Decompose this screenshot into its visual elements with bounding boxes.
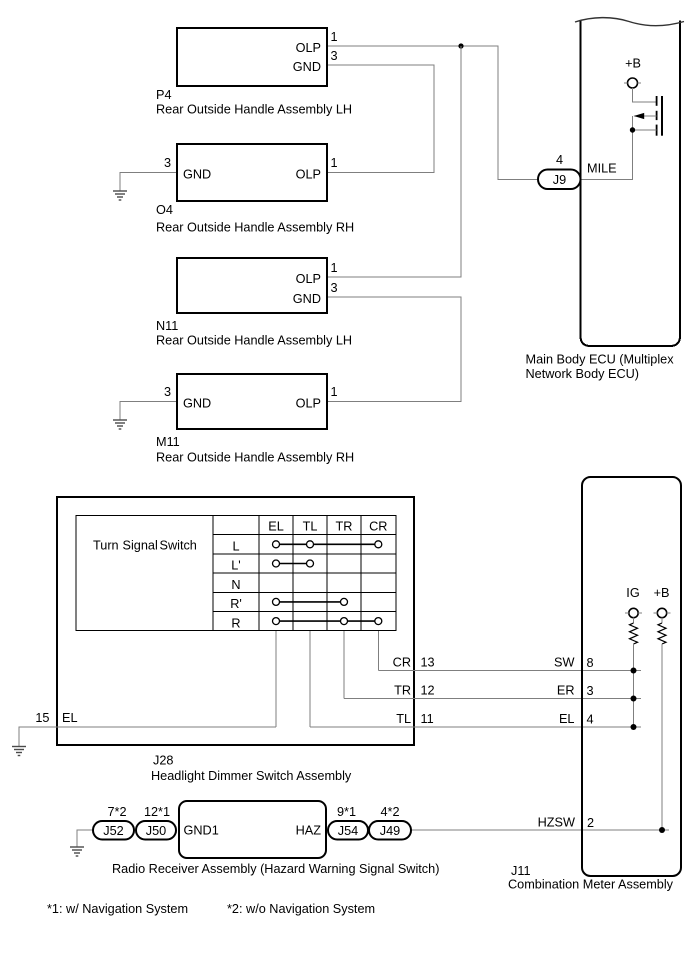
label Rear Outside Handle Assembly RH xyxy=(156,221,354,235)
O4 pin name OLP xyxy=(296,168,321,182)
connector J9 xyxy=(538,170,581,190)
wire +B line down to HZSW node xyxy=(661,644,663,830)
J11 pin name EL xyxy=(559,712,575,726)
svg-text:*1: w/ Navigation System: *1: w/ Navigation System xyxy=(47,902,188,916)
J11 pin number 2 xyxy=(587,816,594,830)
J9 pin number 4 xyxy=(556,153,563,167)
switch row L' contacts xyxy=(273,560,314,567)
wire EL column drop xyxy=(275,631,277,727)
wire radio ground to J52 xyxy=(77,830,93,847)
svg-text:J49: J49 xyxy=(380,824,400,838)
svg-text:J28: J28 xyxy=(153,754,173,768)
svg-text:HZSW: HZSW xyxy=(538,816,575,830)
wire J28 EL pin15 to ground xyxy=(19,727,276,747)
O4 pin number 1 xyxy=(331,156,338,170)
svg-text:GND: GND xyxy=(183,168,211,182)
svg-text:13: 13 xyxy=(421,656,435,670)
svg-text:CR: CR xyxy=(369,520,387,534)
svg-text:Rear Outside Handle Assembly L: Rear Outside Handle Assembly LH xyxy=(156,103,352,117)
svg-text:R': R' xyxy=(230,597,242,611)
connector J54 xyxy=(328,821,368,840)
label N11 xyxy=(156,319,178,333)
svg-text:4: 4 xyxy=(556,153,563,167)
label Rear Outside Handle Assembly LH xyxy=(156,103,352,117)
table column headers EL TL TR CR xyxy=(268,520,387,534)
svg-text:O4: O4 xyxy=(156,203,173,217)
svg-text:HAZ: HAZ xyxy=(296,824,322,838)
P4 pin name OLP xyxy=(296,41,321,55)
box J28 Headlight Dimmer Switch Assembly xyxy=(57,497,414,745)
J54 pin number 9*1 xyxy=(337,805,356,819)
svg-text:12*1: 12*1 xyxy=(144,805,170,819)
J11 pin name SW xyxy=(554,656,574,670)
+B terminal circle (ECU) xyxy=(624,78,641,88)
J11 pin number 3 xyxy=(587,684,594,698)
P4 pin number 3 xyxy=(331,49,338,63)
svg-text:OLP: OLP xyxy=(296,397,321,411)
IG terminal label xyxy=(626,586,639,600)
wire O4 GND pin3 to ground xyxy=(120,173,177,192)
J28 pin name TR xyxy=(394,684,411,698)
connector J52 xyxy=(93,821,134,840)
svg-text:L: L xyxy=(232,540,239,554)
box O4 Rear Outside Handle Assembly RH xyxy=(177,144,327,201)
M11 pin number 3 xyxy=(164,385,171,399)
label O4 xyxy=(156,203,173,217)
svg-text:7*2: 7*2 xyxy=(107,805,126,819)
switch row R' contacts xyxy=(273,598,348,605)
+B terminal label (ECU) xyxy=(625,57,641,71)
svg-text:12: 12 xyxy=(421,684,435,698)
svg-text:GND: GND xyxy=(183,397,211,411)
svg-text:CR: CR xyxy=(393,656,411,670)
svg-text:1: 1 xyxy=(331,385,338,399)
svg-text:Combination Meter Assembly: Combination Meter Assembly xyxy=(508,878,674,892)
wire J28 CR pin13 to J11 SW pin8 xyxy=(378,670,641,672)
svg-text:OLP: OLP xyxy=(296,272,321,286)
svg-text:SW: SW xyxy=(554,656,574,670)
svg-text:N11: N11 xyxy=(156,319,178,333)
ECU box Main Body ECU xyxy=(581,21,681,347)
junction node ER/IG xyxy=(631,696,637,702)
O4 pin number 3 xyxy=(164,156,171,170)
resistor R (+B) xyxy=(658,618,666,644)
N11 pin number 3 xyxy=(331,281,338,295)
svg-text:J52: J52 xyxy=(103,824,123,838)
label Headlight Dimmer Switch Assembly xyxy=(151,769,352,783)
J11 pin name ER xyxy=(557,684,575,698)
svg-text:Headlight Dimmer Switch Assemb: Headlight Dimmer Switch Assembly xyxy=(151,769,352,783)
label Rear Outside Handle Assembly LH (N11) xyxy=(156,334,352,348)
P4 pin number 1 xyxy=(331,30,338,44)
table row label R' xyxy=(230,597,242,611)
switch row R contacts xyxy=(273,618,382,625)
+B terminal circle (J11) xyxy=(654,608,671,617)
svg-text:TL: TL xyxy=(396,712,411,726)
J11 pin name HZSW xyxy=(538,816,575,830)
N11 pin name GND xyxy=(293,292,321,306)
wire J28 TL pin11 to J11 EL pin4 xyxy=(310,726,641,728)
svg-text:J11: J11 xyxy=(511,864,531,878)
J28 pin name EL xyxy=(62,711,78,725)
svg-text:+B: +B xyxy=(625,57,641,71)
svg-text:+B: +B xyxy=(654,586,670,600)
svg-text:11: 11 xyxy=(421,712,434,726)
ECU wavy top edge xyxy=(575,18,684,26)
svg-text:EL: EL xyxy=(559,712,575,726)
svg-text:1: 1 xyxy=(331,261,338,275)
resistor R (IG) xyxy=(630,618,638,644)
footnote *2 w/o Navigation System xyxy=(227,902,375,916)
box Radio Receiver Assembly xyxy=(179,801,326,858)
wire +B terminal to transistor drain xyxy=(633,88,657,102)
transistor Q1 source stub xyxy=(633,129,657,131)
IG terminal circle xyxy=(625,608,642,617)
svg-text:Main Body ECU (Multiplex: Main Body ECU (Multiplex xyxy=(526,353,675,367)
svg-text:Turn: Turn xyxy=(93,539,119,553)
junction node on P4 OLP wire xyxy=(458,43,463,48)
svg-text:Rear Outside Handle Assembly R: Rear Outside Handle Assembly RH xyxy=(156,221,354,235)
M11 pin number 1 xyxy=(331,385,338,399)
ground (J28 EL) xyxy=(12,747,26,756)
svg-text:1: 1 xyxy=(331,30,338,44)
svg-text:3: 3 xyxy=(164,385,171,399)
svg-text:3: 3 xyxy=(331,281,338,295)
transistor Q1 body stub and arrow xyxy=(634,113,657,119)
J11 pin number 4 xyxy=(587,713,594,727)
svg-text:*2: w/o Navigation System: *2: w/o Navigation System xyxy=(227,902,375,916)
label Turn Signal Switch xyxy=(93,539,197,553)
switch row R contact line xyxy=(276,620,378,622)
label Rear Outside Handle Assembly RH (M11) xyxy=(156,451,354,465)
connector J49 xyxy=(369,821,411,840)
svg-text:3: 3 xyxy=(331,49,338,63)
transistor Q1 channel bar xyxy=(656,96,658,136)
wire TL column drop xyxy=(309,631,311,727)
J28 pin number 12 xyxy=(421,684,435,698)
J28 pin number 11 xyxy=(421,712,434,726)
svg-text:Signal: Signal xyxy=(123,539,158,553)
table row label L xyxy=(232,540,239,554)
svg-text:M11: M11 xyxy=(156,435,180,449)
svg-text:GND: GND xyxy=(293,60,321,74)
label Combination Meter Assembly xyxy=(508,878,674,892)
transistor Q1 gate plate xyxy=(661,96,663,136)
switch row L contact line xyxy=(276,543,378,545)
ground (radio GND1) xyxy=(70,847,84,856)
+B terminal label (J11) xyxy=(654,586,670,600)
svg-text:J50: J50 xyxy=(146,824,166,838)
svg-text:2: 2 xyxy=(587,816,594,830)
label Radio Receiver Assembly (Hazard Warning Signal Switch) xyxy=(112,862,439,876)
label Main Body ECU (Multiplex Network Body ECU) xyxy=(526,353,675,382)
box M11 Rear Outside Handle Assembly RH xyxy=(177,374,327,429)
wire P4 GND pin3 to O4 OLP pin1 xyxy=(327,65,434,173)
svg-text:EL: EL xyxy=(62,711,78,725)
svg-text:ER: ER xyxy=(557,684,575,698)
svg-text:J54: J54 xyxy=(338,824,358,838)
svg-text:Network Body ECU): Network Body ECU) xyxy=(526,367,640,381)
switch row L contacts xyxy=(273,541,382,548)
svg-text:Rear Outside Handle Assembly L: Rear Outside Handle Assembly LH xyxy=(156,334,352,348)
label J28 xyxy=(153,754,173,768)
svg-text:MILE: MILE xyxy=(587,162,617,176)
table row label R xyxy=(231,616,240,630)
svg-text:N: N xyxy=(231,578,240,592)
connector J50 xyxy=(136,821,176,840)
svg-text:R: R xyxy=(231,616,240,630)
svg-text:TR: TR xyxy=(336,520,353,534)
svg-text:4*2: 4*2 xyxy=(380,805,399,819)
wire transistor body to source node xyxy=(632,116,634,130)
table horizontals xyxy=(213,535,396,612)
label M11 xyxy=(156,435,180,449)
box P4 Rear Outside Handle Assembly LH xyxy=(177,28,327,86)
J28 pin number 13 xyxy=(421,656,435,670)
J28 pin number 15 xyxy=(35,711,49,725)
svg-text:4: 4 xyxy=(587,713,594,727)
svg-text:EL: EL xyxy=(268,520,284,534)
table verticals xyxy=(213,516,361,631)
switch row R' contact line xyxy=(276,601,344,603)
svg-text:9*1: 9*1 xyxy=(337,805,356,819)
wire IG line down to EL node xyxy=(633,644,635,727)
wire J9 to transistor source xyxy=(581,130,633,180)
svg-text:TR: TR xyxy=(394,684,411,698)
wire junction down to N11 OLP pin1 xyxy=(327,46,461,277)
svg-text:P4: P4 xyxy=(156,88,172,102)
radio pin name HAZ xyxy=(296,824,322,838)
J28 pin name TL xyxy=(396,712,411,726)
N11 pin number 1 xyxy=(331,261,338,275)
svg-text:GND: GND xyxy=(293,292,321,306)
wire P4 OLP pin1 to connector J9 xyxy=(327,46,538,180)
ground (O4) xyxy=(113,191,127,200)
ground (M11) xyxy=(113,420,127,429)
J28 pin name CR xyxy=(393,656,411,670)
wire M11 GND pin3 to ground xyxy=(120,402,177,421)
svg-text:OLP: OLP xyxy=(296,168,321,182)
J50 pin number 12*1 xyxy=(144,805,170,819)
table row label L' xyxy=(231,559,240,573)
junction node HZSW/+B xyxy=(659,827,665,833)
svg-text:Rear Outside Handle Assembly R: Rear Outside Handle Assembly RH xyxy=(156,451,354,465)
svg-text:3: 3 xyxy=(587,684,594,698)
svg-text:3: 3 xyxy=(164,156,171,170)
svg-text:OLP: OLP xyxy=(296,41,321,55)
junction node SW/IG xyxy=(631,668,637,674)
M11 pin name GND xyxy=(183,397,211,411)
wire TR column drop xyxy=(343,631,345,699)
turn signal switch table frame xyxy=(76,516,396,631)
svg-text:1: 1 xyxy=(331,156,338,170)
net label MILE xyxy=(587,162,617,176)
switch row L' contact line xyxy=(276,563,310,565)
wire J28 TR pin12 to J11 ER pin3 xyxy=(344,698,641,700)
box J11 Combination Meter Assembly xyxy=(582,477,681,876)
box N11 Rear Outside Handle Assembly LH xyxy=(177,258,327,313)
J11 pin number 8 xyxy=(587,656,594,670)
table row label N xyxy=(231,578,240,592)
P4 pin name GND xyxy=(293,60,321,74)
svg-text:IG: IG xyxy=(626,586,639,600)
wire J49 to J11 HZSW pin2 xyxy=(411,829,669,831)
footnote *1 w/ Navigation System xyxy=(47,902,188,916)
junction node EL/IG xyxy=(631,724,637,730)
svg-text:15: 15 xyxy=(35,711,49,725)
svg-text:8: 8 xyxy=(587,656,594,670)
wire N11 GND pin3 to M11 OLP pin1 xyxy=(327,297,461,402)
svg-text:J9: J9 xyxy=(553,173,566,187)
junction node at transistor source xyxy=(630,127,635,132)
svg-text:Radio Receiver Assembly (Hazar: Radio Receiver Assembly (Hazard Warning … xyxy=(112,862,439,876)
svg-text:TL: TL xyxy=(303,520,318,534)
J49 pin number 4*2 xyxy=(380,805,399,819)
svg-text:GND1: GND1 xyxy=(184,824,219,838)
label J11 xyxy=(511,864,531,878)
J52 pin number 7*2 xyxy=(107,805,126,819)
M11 pin name OLP xyxy=(296,397,321,411)
svg-text:Switch: Switch xyxy=(160,539,197,553)
O4 pin name GND xyxy=(183,168,211,182)
radio pin name GND1 xyxy=(184,824,219,838)
wire CR column drop xyxy=(377,631,379,671)
svg-text:L': L' xyxy=(231,559,240,573)
N11 pin name OLP xyxy=(296,272,321,286)
label P4 xyxy=(156,88,172,102)
